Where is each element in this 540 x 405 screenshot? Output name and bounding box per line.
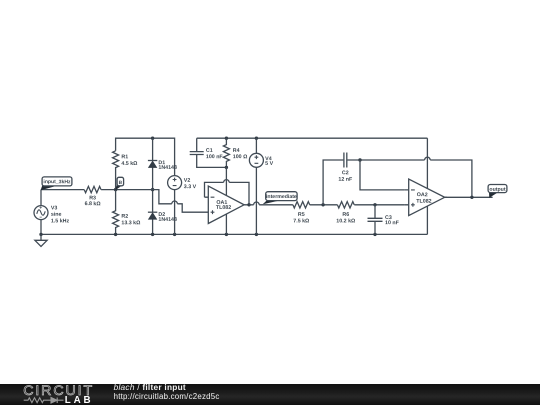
- op-amp OA2: [409, 179, 445, 216]
- node junction gnd/R2: [114, 233, 117, 236]
- flag intermediate: [263, 200, 279, 204]
- node junction gnd/OA1: [225, 233, 228, 236]
- svg-text:10 nF: 10 nF: [385, 220, 400, 226]
- svg-text:R5: R5: [298, 212, 305, 218]
- svg-text:output: output: [489, 187, 505, 193]
- svg-text:100 nF: 100 nF: [206, 154, 224, 160]
- svg-text:R2: R2: [121, 214, 128, 220]
- wire hop over V2 column: [172, 201, 178, 204]
- diode D2: [148, 211, 157, 213]
- op-amp OA1: [208, 186, 244, 223]
- svg-text:C1: C1: [206, 148, 213, 154]
- svg-text:R1: R1: [121, 154, 128, 160]
- resistor R4: [223, 138, 229, 167]
- svg-text:10.2 kΩ: 10.2 kΩ: [336, 218, 356, 224]
- resistor R1: [113, 151, 119, 190]
- node junction gnd/D2: [151, 233, 154, 236]
- wire C2 row to OA2 output feedback: [360, 160, 472, 197]
- capacitor C3: [368, 205, 383, 235]
- node junction signal/D: [151, 188, 154, 191]
- logo resistor-diode squiggle: [24, 398, 64, 404]
- svg-text:C2: C2: [342, 170, 349, 176]
- node junction rail/V4: [255, 137, 258, 140]
- logo CIRCUIT LAB: [23, 383, 94, 399]
- wire D column: [152, 138, 154, 234]
- svg-text:V2: V2: [184, 178, 191, 184]
- wire OA1 feedback: [205, 182, 250, 204]
- flag output: [489, 193, 497, 198]
- svg-text:5 V: 5 V: [265, 161, 273, 167]
- node junction gnd/V4: [255, 233, 258, 236]
- wire R6 to OA2: [354, 204, 405, 206]
- node junction output/feedback: [470, 196, 473, 199]
- wire OA1 out to R5: [249, 204, 293, 206]
- svg-text:R6: R6: [342, 212, 349, 218]
- svg-text:3.3 V: 3.3 V: [184, 184, 197, 190]
- wire OA1 V- pin: [225, 214, 227, 234]
- svg-text:13.3 kΩ: 13.3 kΩ: [121, 220, 141, 226]
- footer url text: [114, 392, 220, 401]
- wire input signal row: [41, 190, 205, 213]
- svg-text:TL082: TL082: [416, 199, 431, 205]
- wire hop over V4 column: [254, 202, 260, 205]
- resistor R3: [84, 186, 101, 192]
- svg-text:100 Ω: 100 Ω: [233, 154, 248, 160]
- resistor R2: [113, 190, 119, 235]
- node junction C1/R4: [225, 166, 228, 169]
- node junction C2 tap: [321, 203, 324, 206]
- node junction gnd/V2: [173, 233, 176, 236]
- voltage source V4: [255, 138, 257, 153]
- footer bar: [0, 384, 540, 405]
- wire top-left 3.3V rail: [116, 138, 175, 175]
- wire hop feedback over V+: [224, 180, 230, 183]
- svg-text:6.8 kΩ: 6.8 kΩ: [85, 201, 102, 207]
- node junction gnd/C3: [373, 233, 376, 236]
- ground rail: [41, 233, 427, 235]
- ground symbol: [35, 234, 47, 246]
- wire R5 to R6: [310, 204, 338, 206]
- svg-text:R4: R4: [233, 148, 240, 154]
- svg-text:4.5 kΩ: 4.5 kΩ: [121, 161, 138, 167]
- node junction rail/D1: [151, 137, 154, 140]
- svg-text:1.5 kHz: 1.5 kHz: [51, 218, 70, 224]
- wire hop over OA2 V+: [425, 157, 431, 160]
- node junction B: [114, 188, 117, 191]
- flag input_3kHz: [41, 185, 57, 190]
- svg-text:V3: V3: [51, 205, 58, 211]
- voltage source V2: [168, 176, 182, 190]
- node junction gnd/V3: [39, 233, 42, 236]
- node tag B: [115, 185, 121, 190]
- node junction rail/R4: [225, 137, 228, 140]
- svg-text:input_3kHz: input_3kHz: [43, 179, 71, 185]
- node junction OA1 out: [247, 203, 250, 206]
- svg-text:1N4148: 1N4148: [158, 165, 177, 171]
- node junction C3 tap: [373, 203, 376, 206]
- wire OA1 V+ pin: [225, 167, 227, 195]
- wire OA2 V+ pin: [426, 138, 428, 189]
- svg-text:intermediate: intermediate: [266, 194, 297, 200]
- voltage source V3 sine: [40, 190, 42, 206]
- resistor R6: [337, 202, 354, 208]
- wire OA2 V- pin: [426, 206, 428, 234]
- wire OA2 minus branch: [360, 160, 405, 190]
- capacitor C2: [323, 153, 360, 205]
- wire OA2 output: [445, 196, 493, 198]
- diode D1: [148, 160, 157, 162]
- svg-text:12 nF: 12 nF: [338, 177, 353, 183]
- svg-text:7.5 kΩ: 7.5 kΩ: [293, 218, 310, 224]
- svg-text:B: B: [119, 180, 123, 186]
- capacitor C1: [190, 138, 227, 167]
- footer title text: [114, 382, 186, 392]
- svg-text:sine: sine: [51, 212, 62, 218]
- svg-text:OA2: OA2: [417, 192, 428, 198]
- wire top 5V rail: [197, 137, 428, 139]
- node junction fb/minus: [358, 158, 361, 161]
- resistor R5: [293, 202, 310, 208]
- svg-text:TL082: TL082: [216, 205, 231, 211]
